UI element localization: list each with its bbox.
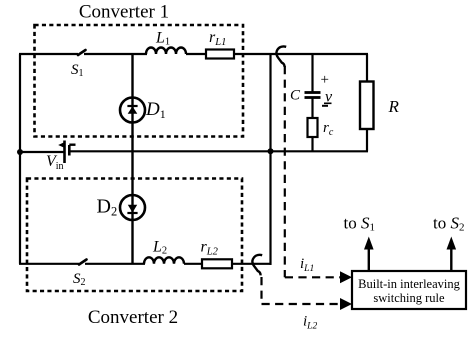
capacitor to rc wire xyxy=(311,98,313,118)
switch S1 xyxy=(78,50,86,55)
dashed line iL1 horizontal xyxy=(285,276,341,278)
svg-text:rL1: rL1 xyxy=(209,29,226,48)
svg-text:D2: D2 xyxy=(97,196,118,219)
wire rc to bottom rail xyxy=(311,137,313,151)
label R xyxy=(388,97,400,116)
svg-text:rc: rc xyxy=(323,120,334,138)
label iL2 xyxy=(303,314,317,332)
inductor L1 xyxy=(146,48,186,55)
label to S1 xyxy=(344,214,375,234)
dashed line iL2 vertical xyxy=(260,277,262,304)
wire: rL1 to right output node xyxy=(234,53,368,55)
wire: R branch vertical bottom xyxy=(366,129,368,151)
wire: S2 horizontal left segment xyxy=(19,263,79,265)
svg-text:Vin: Vin xyxy=(46,153,64,172)
wire: top horizontal (S1 left segment) xyxy=(19,53,78,55)
svg-text:C: C xyxy=(290,88,301,104)
capacitor C plates xyxy=(305,93,321,98)
wire: Vin left segment xyxy=(20,151,64,153)
wire: Vin to bottom output rail xyxy=(69,150,369,152)
label L2 xyxy=(152,239,167,257)
capacitor branch wire upper xyxy=(311,54,313,92)
converter 1 dashed box xyxy=(35,25,244,137)
label Converter 1 xyxy=(79,2,169,23)
wire: S2 to L2 xyxy=(85,263,145,265)
label rL2 xyxy=(201,239,219,258)
current sense hook iL1 on top wire xyxy=(276,46,286,67)
wire: vertical from converter 2 output up to output node xyxy=(269,54,271,265)
inductor L2 xyxy=(144,257,184,264)
arrowhead iL2 into rule box xyxy=(340,298,352,310)
junction dot at output bottom node xyxy=(268,148,274,154)
svg-text:to S2: to S2 xyxy=(433,214,464,234)
label Converter 2 xyxy=(88,307,178,328)
arrowhead iL1 into rule box xyxy=(340,271,352,283)
svg-text:switching rule: switching rule xyxy=(373,291,445,305)
label D1 xyxy=(145,99,166,121)
dashed line iL1 vertical xyxy=(284,66,286,277)
svg-text:Built-in interleaving: Built-in interleaving xyxy=(358,277,460,291)
diode D2 xyxy=(120,195,145,220)
resistor rL2 xyxy=(202,259,232,268)
wire: left vertical rail xyxy=(19,54,21,264)
svg-text:iL1: iL1 xyxy=(300,256,314,274)
wire: top horizontal (S1 to L1) xyxy=(84,53,147,55)
label Built-in interleaving switching rule xyxy=(358,277,460,305)
current sense hook iL2 on converter 2 output wire xyxy=(252,255,262,276)
label rL1 xyxy=(209,29,226,48)
svg-text:S1: S1 xyxy=(71,62,84,79)
arrow to S1 from rule box xyxy=(364,237,374,272)
wire: vertical branch D1-D2 at x=132 xyxy=(131,54,133,264)
svg-text:R: R xyxy=(388,97,400,116)
label D2 xyxy=(97,196,118,219)
resistor R xyxy=(360,82,374,130)
resistor rL1 xyxy=(206,50,234,59)
switch S2 xyxy=(79,260,87,265)
label rc xyxy=(323,120,334,138)
label to S2 xyxy=(433,214,464,234)
wire: rL2 to corner xyxy=(232,263,272,265)
label S1 xyxy=(71,62,84,79)
junction dot at Vin node on left rail xyxy=(17,149,23,155)
arrow to S2 from rule box xyxy=(447,237,457,272)
switching rule box U1 xyxy=(352,271,466,309)
svg-text:S2: S2 xyxy=(73,271,86,288)
diode D1 xyxy=(120,98,145,123)
svg-text:L1: L1 xyxy=(155,30,170,48)
svg-text:+: + xyxy=(321,72,329,88)
svg-text:iL2: iL2 xyxy=(303,314,317,332)
svg-text:D1: D1 xyxy=(145,99,166,121)
label S2 xyxy=(73,271,86,288)
svg-text:Converter 2: Converter 2 xyxy=(88,307,178,328)
svg-text:Converter 1: Converter 1 xyxy=(79,2,169,23)
wire: L1 to rL1 xyxy=(186,53,206,55)
converter 2 dashed box xyxy=(27,179,242,292)
svg-text:L2: L2 xyxy=(152,239,167,257)
wire: L2 to rL2 xyxy=(184,263,202,265)
battery Vin xyxy=(58,141,75,164)
svg-text:rL2: rL2 xyxy=(201,239,219,258)
dashed line iL2 horizontal xyxy=(262,303,342,305)
label Vin xyxy=(46,153,64,172)
label + v - output polarity xyxy=(321,72,334,106)
label C xyxy=(290,88,301,104)
wire: R branch vertical top xyxy=(366,54,368,82)
label L1 xyxy=(155,30,170,48)
label iL1 xyxy=(300,256,314,274)
resistor rc xyxy=(308,118,318,137)
svg-text:to S1: to S1 xyxy=(344,214,375,234)
